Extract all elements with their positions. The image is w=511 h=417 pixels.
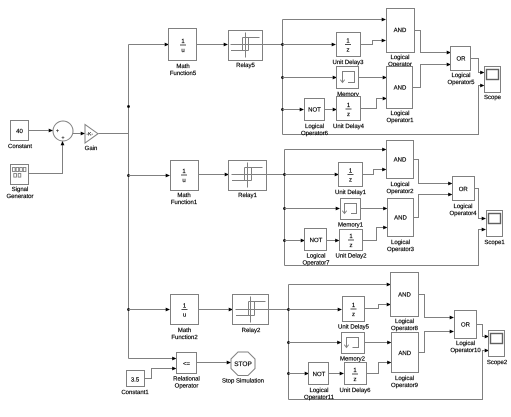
icon Relay5 — [245, 33, 247, 58]
icon Relay1 — [247, 163, 249, 188]
block Unit Delay2 — [340, 230, 363, 251]
icon Memory1 — [345, 204, 357, 214]
svg-text:z: z — [347, 48, 350, 54]
wire Constant to Sum — [29, 130, 49, 132]
svg-text:Math: Math — [178, 327, 191, 334]
wire feeder2 vertical — [284, 150, 286, 266]
svg-text:z: z — [354, 377, 357, 383]
block Logical Operator5 OR — [451, 47, 471, 71]
svg-text:3.5: 3.5 — [131, 377, 140, 384]
block Constant — [11, 121, 29, 141]
block Logical Operator10 OR — [455, 311, 477, 339]
wire feeder2 to Logical Operator7 — [285, 240, 301, 242]
svg-text:Unit Delay4: Unit Delay4 — [333, 123, 365, 130]
svg-text:Scope: Scope — [484, 94, 502, 101]
wire trunk vertical — [128, 45, 130, 359]
svg-text:Unit Delay1: Unit Delay1 — [335, 189, 367, 196]
svg-text:Operator11: Operator11 — [304, 394, 335, 401]
svg-text:AND: AND — [394, 85, 407, 92]
wire Gain to trunk — [99, 133, 129, 135]
block Logical Operator6 NOT — [305, 99, 325, 121]
svg-text:AND: AND — [398, 350, 411, 357]
node feeder1 branch b — [281, 76, 284, 79]
wire Memory2 to Logical Operator9 in1 — [365, 342, 388, 344]
sum block — [53, 121, 73, 141]
block Math Function5 — [169, 29, 197, 61]
svg-text:Logical: Logical — [306, 253, 325, 260]
svg-text:-K-: -K- — [86, 132, 93, 138]
block Relay1 — [229, 161, 267, 191]
svg-text:u: u — [183, 313, 186, 319]
wire Memory to Logical Operator1 in1 — [359, 77, 383, 79]
svg-text:Generator: Generator — [6, 193, 33, 200]
block Memory — [337, 67, 359, 89]
svg-text:40: 40 — [16, 128, 23, 135]
wire Unit Delay2 to Logical Operator3 in2 — [363, 228, 384, 241]
svg-text:Math: Math — [176, 63, 189, 70]
svg-text:Logical: Logical — [390, 181, 409, 188]
wire Relay2 to feeder3 — [269, 309, 289, 311]
wire trunk to Relational Operator in1 — [129, 358, 173, 360]
wire Logical Operator10 to Scope2 in1 — [477, 325, 485, 337]
wire Unit Delay3 to Logical Operator in2 — [361, 41, 383, 45]
svg-text:z: z — [349, 178, 352, 184]
svg-text:Relational: Relational — [173, 376, 200, 383]
svg-text:Relay5: Relay5 — [236, 62, 255, 69]
svg-text:Operator7: Operator7 — [302, 259, 330, 266]
svg-text:NOT: NOT — [310, 237, 323, 244]
wire feeder1 bottom to Scope in2 — [283, 86, 481, 135]
block Math Function1 — [171, 161, 199, 191]
svg-text:Operator1: Operator1 — [386, 117, 414, 124]
svg-text:Logical: Logical — [395, 375, 414, 382]
svg-text:Unit Delay5: Unit Delay5 — [338, 324, 370, 331]
block Logical Operator7 NOT — [305, 229, 327, 251]
wire feeder2 to Unit Delay1 — [285, 174, 335, 176]
wire feeder1 to Unit Delay3 — [283, 44, 333, 46]
block Logical Operator11 NOT — [309, 363, 329, 385]
node feeder3 branch a — [287, 308, 290, 311]
wire Sum to Gain — [73, 133, 81, 135]
wire Relay5 to feeder1 — [263, 44, 283, 46]
wire Logical Operator3 to Logical Operator4 in2 — [414, 195, 449, 218]
svg-text:Memory1: Memory1 — [338, 222, 364, 229]
svg-text:Operator5: Operator5 — [447, 79, 475, 86]
block Signal Generator — [11, 165, 29, 185]
svg-text:Stop Simulation: Stop Simulation — [222, 378, 264, 385]
svg-text:Logical: Logical — [391, 239, 410, 246]
svg-text:Gain: Gain — [85, 145, 98, 152]
svg-text:z: z — [352, 312, 355, 318]
block Scope1 — [487, 211, 503, 237]
wire feeder1 vertical — [282, 20, 284, 135]
block Unit Delay1 — [339, 163, 363, 187]
wire Logical Operator7 to Unit Delay2 — [327, 240, 336, 242]
block Logical Operator2 AND — [387, 141, 414, 179]
svg-text:+: + — [61, 136, 64, 142]
wire feeder3 vertical — [288, 285, 290, 400]
wire Relational Operator to Stop Simulation — [197, 362, 227, 364]
svg-text:z: z — [350, 243, 353, 249]
wire feeder3 to Unit Delay5 — [289, 309, 339, 311]
svg-text:Operator: Operator — [175, 382, 199, 389]
wire feeder1 to Logical Operator6 — [283, 109, 301, 111]
svg-text:u: u — [182, 178, 185, 184]
block Unit Delay6 — [345, 363, 367, 385]
svg-text:Logical: Logical — [456, 340, 475, 347]
svg-text:Operator3: Operator3 — [387, 246, 415, 253]
svg-text:Constant: Constant — [8, 143, 32, 150]
svg-text:STOP: STOP — [234, 361, 252, 368]
node feeder1 branch c — [281, 108, 284, 111]
svg-text:<=: <= — [183, 361, 191, 367]
block Relay5 — [229, 31, 263, 61]
wire Constant1 to Relational Operator in2 — [145, 369, 173, 379]
wire feeder3 to Memory2 — [289, 342, 338, 344]
node feeder2 branch a — [283, 173, 286, 176]
wire Unit Delay6 to Logical Operator9 in2 — [367, 363, 388, 374]
wire feeder2 to Logical Operator2 in1 — [285, 149, 383, 151]
svg-text:Operator4: Operator4 — [449, 210, 477, 217]
svg-text:Logical: Logical — [390, 54, 409, 61]
svg-text:z: z — [347, 112, 350, 118]
icon Relay2 — [250, 297, 252, 323]
svg-text:Function5: Function5 — [170, 70, 197, 77]
svg-text:OR: OR — [461, 322, 471, 329]
wire Unit Delay1 to Logical Operator2 in2 — [363, 170, 383, 175]
node trunk branch row3 — [127, 308, 130, 311]
wire feeder1 to Logical Operator in1 — [283, 19, 383, 21]
icon Memory2 — [347, 338, 359, 348]
wire Logical Operator8 to Logical Operator10 in1 — [419, 295, 451, 318]
block Unit Delay3 — [337, 33, 361, 57]
block Unit Delay4 — [337, 97, 361, 121]
wire Memory1 to Logical Operator3 in1 — [361, 208, 384, 210]
node trunk branch row2 — [127, 174, 130, 177]
node feeder1 branch a — [281, 43, 284, 46]
svg-text:Operator10: Operator10 — [450, 347, 481, 354]
svg-text:Logical: Logical — [395, 318, 414, 325]
wire Math Function5 to Relay5 — [197, 44, 225, 46]
wire Relay1 to feeder2 — [267, 174, 285, 176]
wire trunk to Math Function5 — [129, 44, 165, 46]
svg-text:Unit Delay2: Unit Delay2 — [335, 253, 367, 260]
svg-text:NOT: NOT — [308, 107, 321, 114]
wire Logical Operator to Logical Operator5 in1 — [415, 31, 447, 53]
wire Logical Operator2 to Logical Operator4 in1 — [414, 160, 449, 184]
icon Signal Generator waveforms — [13, 168, 26, 178]
svg-text:Logical: Logical — [309, 387, 328, 394]
svg-text:u: u — [181, 48, 184, 54]
svg-text:Constant1: Constant1 — [121, 389, 149, 396]
svg-text:AND: AND — [398, 292, 411, 299]
wire feeder1 to Memory — [283, 77, 333, 79]
svg-text:Signal: Signal — [12, 186, 29, 193]
block Math Function2 — [171, 295, 199, 325]
block Scope — [485, 67, 501, 93]
node feeder2 branch c — [283, 239, 286, 242]
svg-text:Unit Delay3: Unit Delay3 — [332, 59, 364, 66]
wire Logical Operator6 to Unit Delay4 — [325, 109, 333, 111]
svg-text:Math: Math — [177, 192, 190, 199]
svg-text:Relay2: Relay2 — [242, 327, 261, 334]
svg-text:OR: OR — [459, 186, 469, 193]
block Stop Simulation octagon — [231, 352, 255, 376]
svg-text:Unit Delay6: Unit Delay6 — [339, 387, 371, 394]
block Relay2 — [233, 295, 269, 325]
wire feeder2 to Memory1 — [285, 208, 337, 210]
wire Logical Operator9 to Logical Operator10 in2 — [419, 332, 451, 353]
block Relational Operator — [177, 353, 197, 374]
svg-text:AND: AND — [394, 215, 407, 222]
wire feeder3 to Logical Operator11 — [289, 373, 305, 375]
node feeder3 branch b — [287, 341, 290, 344]
block Logical Operator1 AND — [387, 67, 413, 109]
svg-text:NOT: NOT — [313, 371, 326, 378]
icon Memory — [343, 72, 355, 83]
wire trunk to Math Function1 — [129, 175, 167, 177]
block Logical Operator8 AND — [391, 273, 419, 317]
block Constant1 — [127, 371, 145, 387]
node feeder3 branch c — [287, 372, 290, 375]
gain block — [85, 125, 98, 144]
wire Logical Operator4 to Scope1 in1 — [475, 189, 483, 219]
node trunk junction dot — [127, 105, 130, 108]
wire feeder3 to Logical Operator8 in1 — [289, 284, 387, 286]
wire feeder2 bottom to Scope1 in2 — [285, 230, 483, 266]
svg-text:Logical: Logical — [451, 72, 470, 79]
svg-text:Operator9: Operator9 — [391, 382, 419, 389]
wire Logical Operator1 to Logical Operator5 in2 — [413, 65, 447, 88]
svg-text:Logical: Logical — [390, 110, 409, 117]
wire trunk to Math Function2 — [129, 309, 167, 311]
svg-text:Relay1: Relay1 — [238, 192, 257, 199]
svg-text:AND: AND — [394, 157, 407, 164]
svg-text:Scope2: Scope2 — [487, 359, 508, 366]
wire Logical Operator11 to Unit Delay6 — [329, 373, 341, 375]
svg-text:Function2: Function2 — [171, 334, 198, 341]
svg-text:Memory2: Memory2 — [340, 356, 366, 363]
block Logical Operator AND — [387, 9, 415, 53]
block Scope2 — [489, 331, 505, 357]
block Logical Operator3 AND — [388, 199, 414, 237]
svg-text:Operator6: Operator6 — [301, 130, 329, 137]
svg-text:Operator8: Operator8 — [391, 325, 419, 332]
wire Signal Generator to Sum — [29, 145, 63, 174]
svg-text:OR: OR — [457, 56, 467, 63]
wire Logical Operator5 to Scope in1 — [471, 59, 481, 73]
block Memory2 — [342, 333, 365, 354]
block Unit Delay5 — [343, 297, 365, 322]
svg-text:Function1: Function1 — [171, 199, 198, 206]
svg-text:Logical: Logical — [305, 123, 324, 130]
wire feeder3 bottom to Scope2 in2 — [289, 351, 485, 400]
block Logical Operator9 AND — [392, 333, 419, 373]
wire Unit Delay5 to Logical Operator8 in2 — [365, 305, 387, 309]
block Memory1 — [341, 199, 361, 220]
svg-text:AND: AND — [394, 27, 407, 34]
svg-text:+: + — [56, 129, 59, 135]
node feeder2 branch b — [283, 207, 286, 210]
wire Unit Delay4 to Logical Operator1 in2 — [361, 99, 383, 109]
svg-text:Operator2: Operator2 — [386, 188, 414, 195]
wire Math Function2 to Relay2 — [199, 309, 229, 311]
wire Math Function1 to Relay1 — [199, 174, 225, 176]
block Logical Operator4 OR — [453, 177, 475, 201]
svg-text:Logical: Logical — [453, 203, 472, 210]
svg-text:Scope1: Scope1 — [484, 239, 505, 246]
